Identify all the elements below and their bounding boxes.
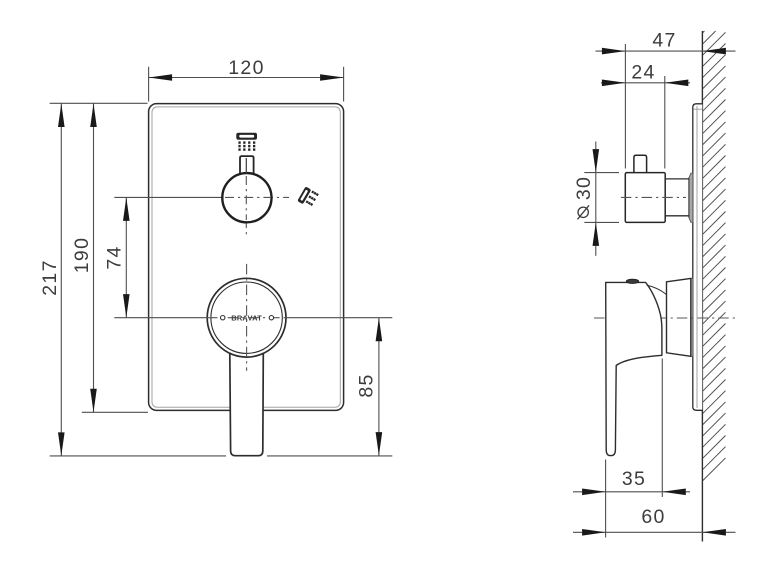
- svg-text:24: 24: [631, 61, 655, 83]
- lever handle front view: [207, 278, 286, 455]
- diverter knob side view: body: [625, 173, 665, 223]
- extension lines 47/24 down to knob: [625, 44, 664, 169]
- svg-text:47: 47: [652, 30, 676, 52]
- dimension 85 right: [355, 318, 382, 456]
- svg-text:BRAVAT: BRAVAT: [231, 314, 262, 323]
- overhead shower icon: [236, 133, 257, 151]
- centerline vertical through handle: [246, 264, 248, 371]
- centerline horizontal through handle / 85 extension: [114, 317, 392, 319]
- handle side view: escutcheon base: [667, 278, 691, 356]
- dimension 47: [596, 30, 736, 55]
- shared top extension line (217/190): [50, 102, 148, 104]
- bottom extension line at handle tip (217/85): [50, 455, 393, 457]
- svg-text:190: 190: [71, 237, 93, 273]
- handle side view: flange strip: [691, 278, 693, 356]
- dimension 24: [601, 61, 690, 86]
- hand shower icon: [297, 186, 319, 208]
- svg-text:60: 60: [641, 506, 665, 528]
- diverter knob front view: [222, 156, 271, 222]
- dimension dia30: [573, 142, 619, 256]
- wall line: [701, 31, 703, 542]
- extension line handle base (35): [661, 359, 663, 498]
- svg-text:217: 217: [39, 259, 61, 295]
- svg-text:74: 74: [104, 245, 126, 269]
- dimension 35: [573, 468, 690, 495]
- diverter knob side view: step: [665, 178, 689, 218]
- svg-text:85: 85: [355, 373, 377, 397]
- dimension 74: [104, 197, 130, 317]
- screw hole right: [269, 316, 273, 320]
- svg-text:35: 35: [622, 468, 646, 490]
- extension line lever tip (35/60): [605, 460, 607, 538]
- dimension 190: [71, 104, 97, 413]
- dimension 60: [573, 506, 736, 536]
- diverter knob side view: flange: [689, 173, 693, 222]
- handle side view: top button ellipse: [626, 279, 638, 283]
- handle side centerline: [594, 317, 739, 319]
- diverter knob side view: stem: [634, 155, 647, 172]
- front escutcheon plate outline: [149, 104, 344, 411]
- centerline horizontal through knob / 74 extension: [114, 196, 289, 198]
- wall hatching: [702, 31, 725, 481]
- knob side centerline: [621, 196, 686, 198]
- svg-text:30: 30: [573, 176, 595, 200]
- escutcheon plate side view: [693, 104, 703, 411]
- dimension 120 top: [149, 57, 344, 102]
- extension line plate bottom (190): [82, 411, 148, 413]
- screw hole left: [221, 316, 225, 320]
- knob centerline cross: [225, 176, 270, 220]
- dimension 217 left: [39, 104, 65, 456]
- centerline vertical through diverter knob: [245, 156, 247, 237]
- svg-text:120: 120: [228, 57, 264, 79]
- handle side view: lever blade: [606, 282, 667, 455]
